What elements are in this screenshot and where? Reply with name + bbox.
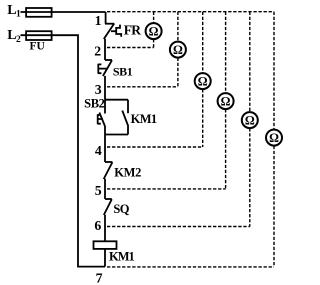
svg-text:Ω: Ω — [221, 94, 231, 108]
svg-text:Ω: Ω — [245, 113, 255, 127]
svg-text:KM1: KM1 — [131, 112, 157, 126]
svg-text:FR: FR — [124, 23, 141, 38]
svg-text:FU: FU — [30, 41, 46, 53]
svg-text:SB1: SB1 — [113, 64, 133, 78]
svg-text:Ω: Ω — [149, 24, 159, 38]
svg-text:Ω: Ω — [173, 43, 183, 57]
svg-text:3: 3 — [95, 82, 102, 97]
svg-text:1: 1 — [16, 10, 21, 20]
svg-text:KM1: KM1 — [109, 250, 135, 264]
svg-text:2: 2 — [94, 44, 101, 59]
svg-text:SQ: SQ — [113, 202, 129, 216]
svg-text:7: 7 — [96, 270, 103, 285]
svg-text:KM2: KM2 — [114, 166, 141, 180]
svg-text:Ω: Ω — [198, 74, 208, 88]
svg-text:6: 6 — [94, 218, 101, 233]
svg-text:4: 4 — [95, 143, 102, 158]
svg-text:SB2: SB2 — [84, 96, 104, 110]
svg-text:2: 2 — [16, 35, 21, 45]
svg-text:Ω: Ω — [269, 131, 279, 145]
svg-text:5: 5 — [95, 183, 102, 198]
svg-text:1: 1 — [95, 13, 102, 28]
